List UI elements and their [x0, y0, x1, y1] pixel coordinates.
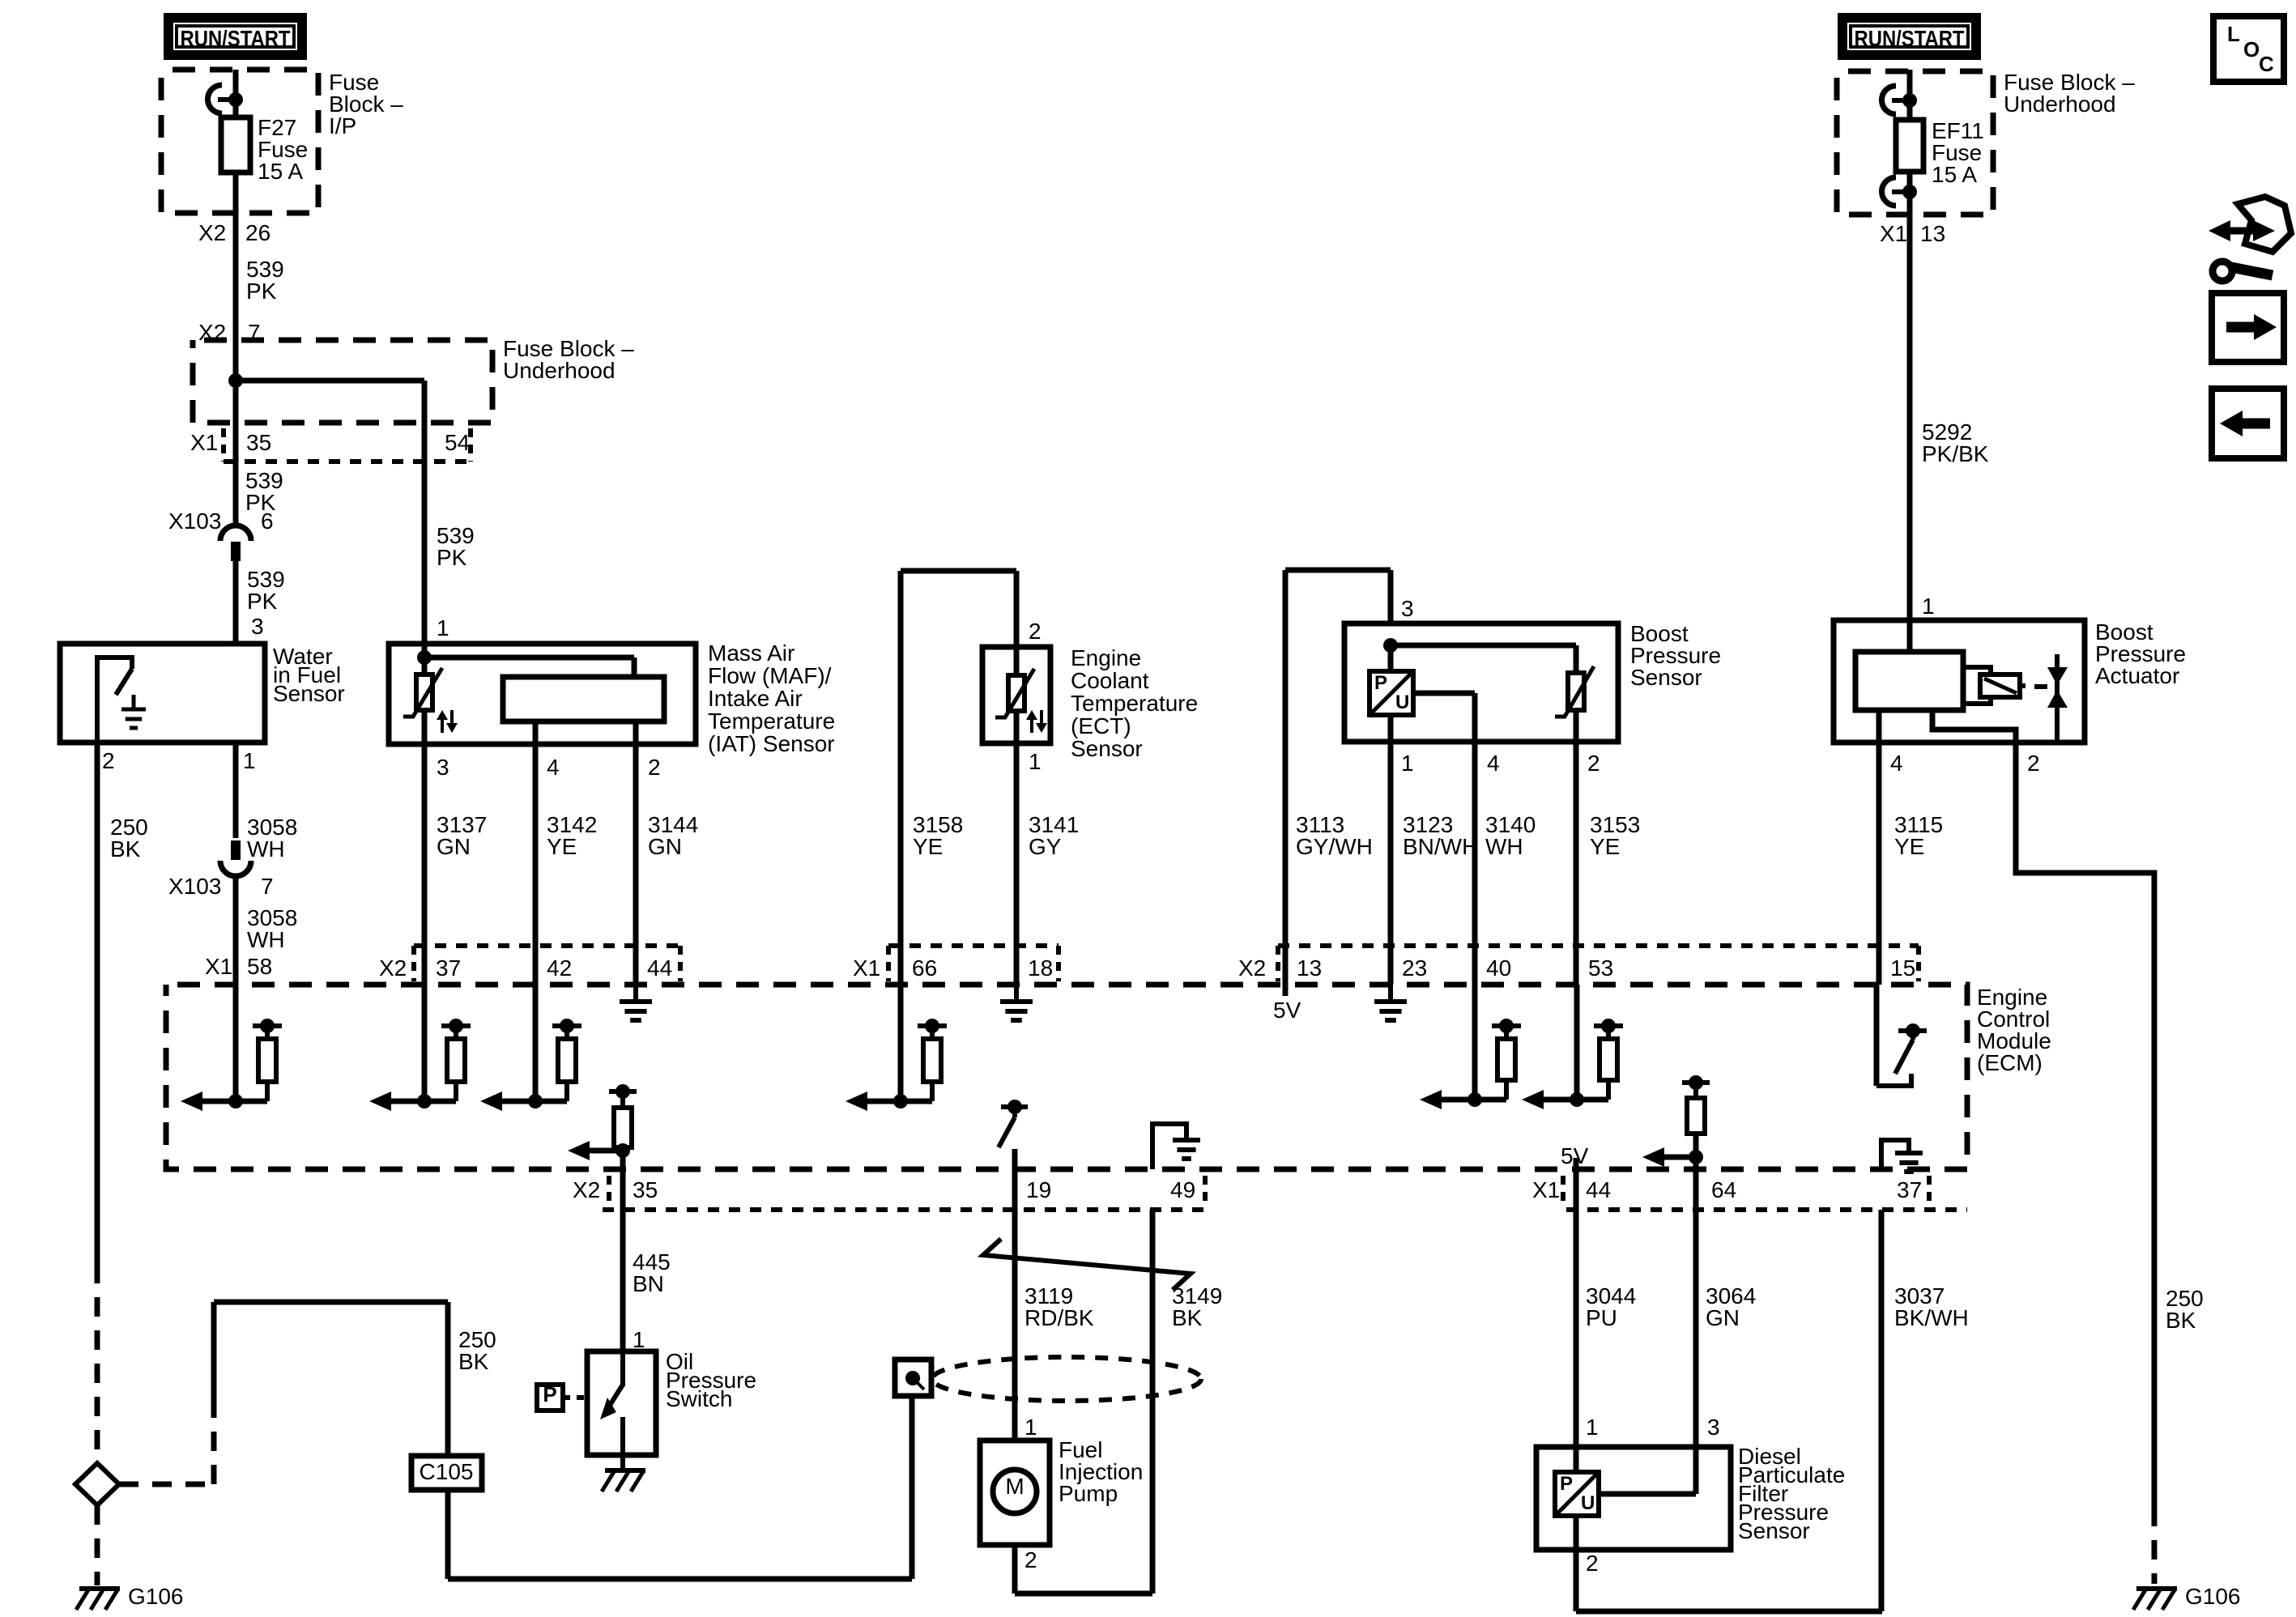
svg-text:42: 42 [547, 955, 572, 981]
svg-text:Engine: Engine [1071, 645, 1141, 670]
svg-text:X103: X103 [168, 874, 221, 899]
svg-text:26: 26 [245, 220, 270, 245]
svg-text:X2: X2 [573, 1177, 600, 1202]
svg-text:RUN/START: RUN/START [1855, 26, 1965, 51]
svg-text:15 A: 15 A [1932, 162, 1977, 187]
svg-text:1: 1 [1586, 1415, 1599, 1440]
svg-text:23: 23 [1402, 955, 1427, 981]
svg-text:7: 7 [261, 874, 274, 899]
svg-text:X1: X1 [1880, 221, 1907, 246]
svg-text:35: 35 [246, 430, 271, 455]
svg-text:6: 6 [261, 509, 274, 534]
svg-text:1: 1 [1401, 751, 1414, 776]
svg-text:PK: PK [246, 279, 277, 304]
svg-text:Sensor: Sensor [1071, 736, 1143, 761]
svg-text:PK: PK [437, 545, 467, 570]
svg-text:O: O [2243, 37, 2260, 62]
svg-text:P: P [1374, 672, 1387, 694]
svg-text:Switch: Switch [666, 1386, 732, 1411]
svg-text:L: L [2227, 22, 2240, 46]
svg-text:18: 18 [1028, 955, 1053, 981]
svg-text:2: 2 [1029, 619, 1042, 644]
svg-text:1: 1 [1029, 749, 1042, 774]
svg-text:53: 53 [1588, 955, 1613, 981]
svg-text:15 A: 15 A [258, 159, 303, 184]
svg-text:Actuator: Actuator [2095, 663, 2179, 688]
svg-text:13: 13 [1297, 955, 1322, 981]
svg-text:(ECM): (ECM) [1977, 1050, 2043, 1075]
svg-text:BK: BK [1172, 1305, 1203, 1330]
svg-text:YE: YE [547, 834, 577, 859]
svg-text:BK/WH: BK/WH [1894, 1305, 1969, 1330]
svg-text:(ECT): (ECT) [1071, 713, 1131, 738]
svg-text:66: 66 [912, 955, 937, 981]
svg-text:BN: BN [633, 1271, 664, 1296]
svg-text:4: 4 [547, 755, 560, 780]
svg-text:RUN/START: RUN/START [181, 26, 291, 51]
svg-text:54: 54 [445, 430, 470, 455]
svg-text:3: 3 [251, 614, 264, 639]
svg-text:Sensor: Sensor [1738, 1518, 1810, 1543]
svg-text:Underhood: Underhood [503, 358, 616, 383]
svg-text:2: 2 [648, 755, 661, 780]
svg-text:Mass Air: Mass Air [708, 640, 794, 666]
svg-text:49: 49 [1170, 1177, 1195, 1202]
svg-text:Sensor: Sensor [1630, 665, 1702, 690]
svg-text:1: 1 [1024, 1415, 1037, 1440]
svg-text:64: 64 [1711, 1177, 1736, 1202]
svg-text:P: P [1560, 1473, 1573, 1495]
svg-text:58: 58 [247, 954, 272, 979]
svg-text:GY/WH: GY/WH [1296, 834, 1373, 859]
svg-text:BK: BK [110, 836, 141, 862]
svg-text:YE: YE [913, 834, 943, 859]
svg-text:2: 2 [1586, 1551, 1599, 1576]
svg-text:G106: G106 [128, 1584, 184, 1609]
svg-text:3: 3 [437, 755, 449, 780]
svg-text:YE: YE [1894, 834, 1924, 859]
svg-text:35: 35 [633, 1177, 658, 1202]
svg-text:BK: BK [458, 1349, 489, 1374]
svg-text:GN: GN [1706, 1305, 1740, 1330]
svg-text:44: 44 [1586, 1177, 1611, 1202]
svg-text:PK/BK: PK/BK [1922, 441, 1989, 466]
svg-text:Coolant: Coolant [1071, 668, 1149, 693]
svg-text:1: 1 [633, 1327, 645, 1352]
svg-text:BN/WH: BN/WH [1403, 834, 1478, 859]
svg-text:1: 1 [243, 748, 256, 773]
svg-text:X2: X2 [198, 220, 226, 245]
svg-text:U: U [1581, 1492, 1595, 1514]
svg-text:U: U [1395, 691, 1409, 713]
svg-text:4: 4 [1890, 751, 1903, 776]
svg-text:2: 2 [1587, 751, 1600, 776]
svg-text:3: 3 [1707, 1415, 1720, 1440]
svg-text:X1: X1 [1532, 1177, 1560, 1202]
svg-text:M: M [1005, 1474, 1024, 1499]
svg-text:X2: X2 [379, 955, 407, 981]
svg-text:RD/BK: RD/BK [1024, 1305, 1094, 1330]
svg-text:P: P [543, 1382, 556, 1406]
svg-text:PU: PU [1586, 1305, 1617, 1330]
svg-text:GN: GN [648, 834, 682, 859]
svg-text:1: 1 [1922, 594, 1935, 619]
svg-text:37: 37 [1897, 1177, 1922, 1202]
svg-text:YE: YE [1590, 834, 1620, 859]
svg-text:15: 15 [1890, 955, 1915, 981]
svg-text:2: 2 [102, 748, 115, 773]
svg-text:Underhood: Underhood [2004, 91, 2116, 117]
svg-text:Pump: Pump [1059, 1481, 1118, 1506]
svg-text:GY: GY [1029, 834, 1062, 859]
svg-text:WH: WH [247, 927, 285, 952]
svg-text:G106: G106 [2185, 1584, 2241, 1609]
svg-text:WH: WH [247, 836, 285, 862]
svg-text:2: 2 [1024, 1547, 1037, 1572]
svg-text:I/P: I/P [329, 113, 356, 138]
svg-text:1: 1 [437, 615, 449, 640]
svg-text:13: 13 [1920, 221, 1945, 246]
svg-text:PK: PK [247, 589, 278, 614]
svg-text:4: 4 [1487, 751, 1500, 776]
svg-text:Intake Air: Intake Air [708, 686, 803, 711]
svg-text:X103: X103 [168, 509, 221, 534]
svg-text:X1: X1 [190, 430, 218, 455]
svg-text:X2: X2 [1238, 955, 1266, 981]
svg-text:5V: 5V [1273, 998, 1301, 1023]
svg-text:37: 37 [436, 955, 461, 981]
svg-text:X1: X1 [853, 955, 880, 981]
svg-text:19: 19 [1026, 1177, 1051, 1202]
svg-text:(IAT) Sensor: (IAT) Sensor [708, 731, 835, 756]
svg-text:40: 40 [1486, 955, 1511, 981]
svg-text:Sensor: Sensor [273, 681, 345, 706]
svg-text:3: 3 [1401, 596, 1414, 621]
svg-text:Temperature: Temperature [1071, 691, 1198, 716]
svg-text:2: 2 [2027, 751, 2040, 776]
svg-text:Flow (MAF)/: Flow (MAF)/ [708, 663, 832, 688]
svg-text:GN: GN [437, 834, 471, 859]
svg-text:WH: WH [1485, 834, 1523, 859]
svg-text:C105: C105 [420, 1459, 474, 1484]
svg-text:44: 44 [647, 955, 672, 981]
svg-text:C: C [2259, 52, 2274, 76]
svg-text:X1: X1 [205, 954, 232, 979]
svg-text:Temperature: Temperature [708, 709, 835, 734]
svg-text:BK: BK [2166, 1308, 2196, 1333]
